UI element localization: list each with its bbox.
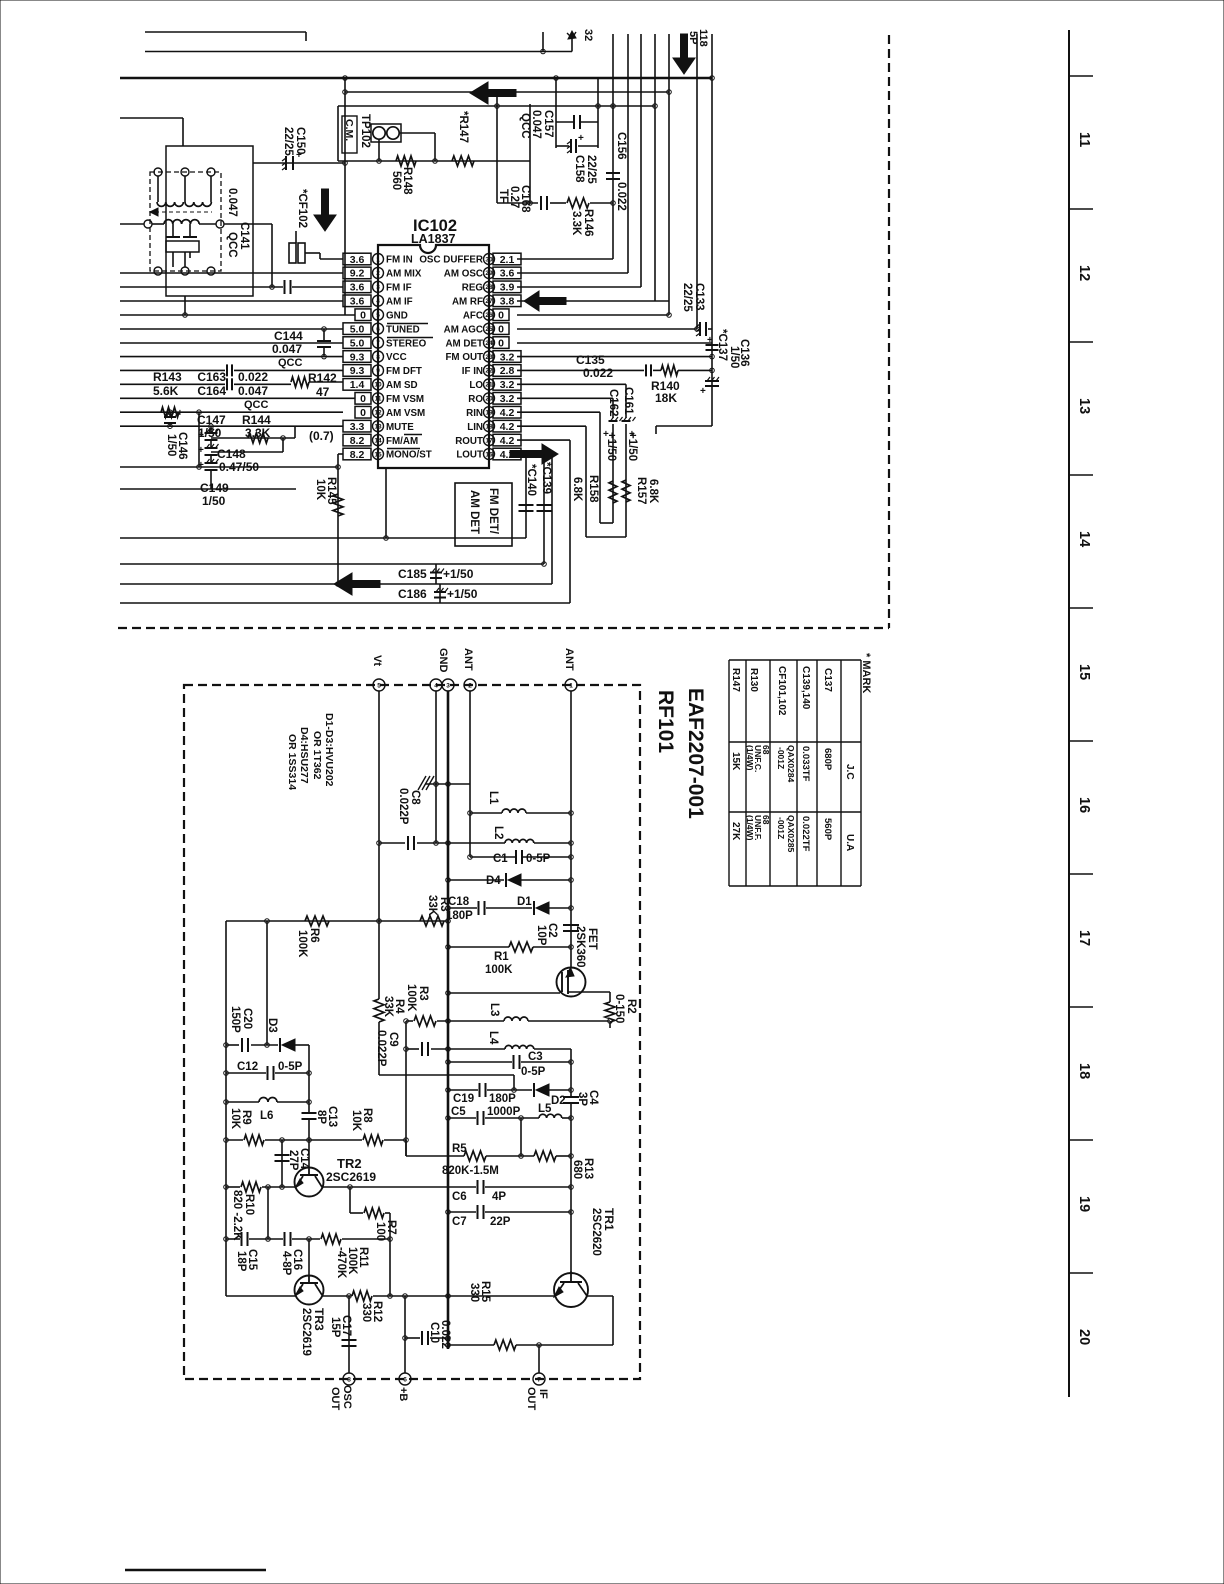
capacitor C10 row: [405, 1337, 420, 1339]
wire pin28 rail: [517, 286, 641, 288]
svg-text:27P: 27P: [287, 1150, 299, 1171]
wire pin9 rail: [120, 369, 225, 371]
svg-text:5.6K: 5.6K: [153, 384, 179, 398]
svg-text:D3: D3: [266, 1018, 278, 1033]
svg-text:C148: C148: [217, 447, 246, 461]
IC pin 22 IF IN: [484, 365, 495, 376]
IC pin name overlines: [387, 323, 428, 325]
svg-text:AM IF: AM IF: [386, 296, 413, 307]
svg-text:TP102: TP102: [359, 114, 371, 148]
svg-text:+1/50: +1/50: [447, 587, 478, 601]
terminal 8 OSC OUT: [343, 1373, 355, 1385]
wire rail y538: [120, 537, 526, 539]
svg-text:RO: RO: [468, 394, 483, 405]
svg-text:0.047: 0.047: [272, 342, 302, 356]
svg-text:15P: 15P: [329, 1317, 341, 1338]
terminal 4 GND: [430, 679, 442, 691]
resistor R15: [494, 1340, 516, 1350]
capacitor C7: [477, 1205, 479, 1219]
svg-text:R13: R13: [582, 1158, 594, 1179]
wire C156 drop: [612, 34, 614, 259]
svg-text:C17: C17: [340, 1315, 352, 1336]
svg-text:ROUT: ROUT: [455, 436, 483, 447]
wire x406 vertical: [405, 1021, 407, 1156]
wire pin11 rail: [120, 397, 355, 399]
svg-text:33K: 33K: [382, 996, 394, 1018]
resistor R3a 33K: [420, 916, 444, 926]
capacitor C158: [570, 139, 572, 153]
svg-text:6: 6: [403, 1376, 407, 1383]
svg-text:100K: 100K: [485, 964, 513, 976]
svg-text:0: 0: [360, 310, 366, 322]
ruler line: [1068, 30, 1070, 1397]
transformer coupling arrow: [155, 211, 212, 213]
svg-text:25: 25: [485, 326, 493, 333]
capacitor C140: [519, 504, 534, 506]
svg-text:C6: C6: [452, 1191, 467, 1203]
svg-text:7: 7: [537, 1376, 541, 1383]
svg-text:*R147: *R147: [457, 111, 469, 143]
svg-text:LOUT: LOUT: [456, 450, 483, 461]
IC pin 21 LO: [484, 379, 495, 390]
svg-text:10K: 10K: [350, 1110, 362, 1132]
svg-text:C137: C137: [822, 668, 833, 692]
svg-text:R144: R144: [242, 413, 271, 427]
IC pin 4 AM IF: [373, 295, 384, 306]
svg-text:0.022P: 0.022P: [375, 1030, 387, 1067]
FET gate wire: [448, 992, 560, 994]
svg-text:R158: R158: [587, 475, 599, 503]
wire pin30 rail: [517, 258, 613, 260]
terminal 1 ANT: [565, 679, 577, 691]
svg-text:QAX0285: QAX0285: [786, 815, 796, 853]
svg-text:18: 18: [485, 423, 493, 430]
wire pin10 rail: [120, 383, 225, 385]
svg-text:* MARK: * MARK: [860, 653, 872, 693]
wire TR2 collector C6 row: [323, 1186, 476, 1188]
capacitor C17: [342, 1339, 357, 1341]
RF101 dashed enclosure: [184, 685, 640, 1379]
resistor R8: [363, 1135, 383, 1145]
ruler tick 7: [1069, 1006, 1093, 1008]
svg-text:27K: 27K: [730, 822, 741, 841]
wire TR3 row: [226, 1295, 296, 1297]
wire R9 R8 row: [226, 1139, 243, 1141]
resistor R142: [291, 377, 309, 387]
svg-text:-470K: -470K: [335, 1247, 347, 1279]
svg-text:TR1: TR1: [602, 1208, 616, 1231]
svg-text:OUT: OUT: [525, 1387, 537, 1411]
wire pin15 stub: [338, 453, 343, 455]
svg-text:D4:HSU277: D4:HSU277: [298, 727, 310, 784]
IC pin 25 AM AGC: [484, 323, 495, 334]
arrow signal LOUT: [510, 444, 558, 464]
svg-text:680: 680: [571, 1160, 583, 1179]
svg-text:0.033TF: 0.033TF: [800, 746, 811, 782]
svg-text:C3: C3: [528, 1051, 543, 1063]
resistor R148: [396, 156, 416, 166]
wire x268 vertical: [267, 1187, 269, 1239]
svg-text:13: 13: [1076, 398, 1092, 414]
test point TP102 jacks: [371, 124, 401, 142]
svg-text:3.6: 3.6: [350, 254, 365, 266]
wire pin27 rail: [517, 300, 669, 302]
svg-text:15K: 15K: [730, 752, 741, 771]
svg-text:22/25: 22/25: [282, 127, 294, 156]
svg-text:AFC: AFC: [463, 310, 483, 321]
capacitor C4: [563, 1096, 579, 1098]
svg-text:C185: C185: [398, 567, 427, 581]
svg-text:VCC: VCC: [386, 352, 407, 363]
svg-text:20: 20: [1076, 1329, 1092, 1345]
svg-text:*C139: *C139: [540, 462, 552, 494]
svg-text:0-5P: 0-5P: [526, 853, 551, 865]
wire transformer ground drop: [184, 296, 186, 315]
capacitor C139 chain: [543, 454, 545, 564]
resistor R144: [248, 433, 268, 443]
svg-text:3.6: 3.6: [350, 282, 365, 294]
svg-text:AM OSC: AM OSC: [444, 269, 483, 280]
capacitor C8: [407, 836, 409, 850]
transformer primary winding: [157, 202, 183, 206]
svg-text:4-8P: 4-8P: [280, 1251, 292, 1276]
capacitor C162 chain: [612, 398, 614, 418]
svg-text:0: 0: [498, 323, 504, 335]
svg-text:18: 18: [1076, 1063, 1092, 1079]
svg-text:RF101: RF101: [654, 690, 677, 753]
wire bus x641: [640, 34, 642, 287]
svg-text:2SC2619: 2SC2619: [326, 1170, 376, 1184]
svg-text:C9: C9: [387, 1032, 399, 1047]
capacitor C10: [421, 1331, 423, 1345]
svg-text:C15: C15: [246, 1249, 258, 1271]
wire R5 R13 row: [406, 1155, 464, 1157]
wire pin25 rail: [517, 328, 697, 330]
svg-text:EAF2207-001: EAF2207-001: [684, 688, 707, 819]
svg-text:C164: C164: [197, 384, 226, 398]
wire R8 corner to R5: [405, 1140, 407, 1156]
diode D1: [533, 901, 535, 915]
capacitor C9: [421, 1042, 423, 1056]
svg-text:13: 13: [374, 423, 382, 430]
svg-text:J.C: J.C: [844, 764, 855, 780]
ceramic filter CF102: [295, 231, 297, 243]
svg-text:15: 15: [374, 451, 382, 458]
wire ROUT drop: [569, 440, 571, 603]
wire x199 drop: [198, 412, 200, 467]
capacitor C18: [478, 901, 480, 915]
resistor R4: [374, 999, 384, 1022]
svg-text:C168: C168: [519, 185, 531, 213]
capacitor C163: [226, 364, 228, 376]
terminal 7 IF OUT: [533, 1373, 545, 1385]
IC pin 9 FM DFT: [373, 365, 384, 376]
svg-text:C13: C13: [326, 1106, 338, 1127]
svg-text:-001Z: -001Z: [776, 747, 786, 769]
svg-text:23: 23: [485, 354, 493, 361]
svg-text:2: 2: [468, 682, 472, 689]
svg-text:18K: 18K: [655, 391, 677, 405]
dashed border right of top section: [888, 35, 890, 628]
capacitor C16: [284, 1232, 286, 1246]
terminal 2 ANT: [464, 679, 476, 691]
svg-text:+: +: [198, 430, 204, 441]
wire pin18 rail: [517, 425, 586, 427]
label C.M. box: [342, 116, 357, 153]
capacitor C148: [205, 447, 218, 449]
svg-text:+: +: [177, 408, 183, 419]
wire pin22 rail: [517, 369, 644, 371]
svg-text:8: 8: [347, 1376, 351, 1383]
wire right chain x571: [570, 1049, 572, 1097]
svg-text:TUNED: TUNED: [386, 324, 420, 335]
svg-text:R12: R12: [371, 1301, 383, 1322]
svg-text:*C140: *C140: [525, 464, 537, 496]
svg-text:QCC: QCC: [226, 232, 238, 258]
wire rail y584: [120, 583, 552, 585]
capacitor C150 wire: [253, 162, 345, 164]
svg-text:OSC: OSC: [341, 1385, 353, 1409]
svg-text:330: 330: [360, 1303, 372, 1322]
svg-text:0.022TF: 0.022TF: [800, 816, 811, 852]
capacitor C158 wires: [556, 145, 569, 147]
svg-text:QCC: QCC: [244, 399, 269, 411]
wire pin4 drop x436: [435, 691, 437, 843]
svg-text:9: 9: [376, 368, 380, 375]
ruler tick 5: [1069, 740, 1093, 742]
svg-text:6.8K: 6.8K: [571, 477, 583, 502]
svg-text:29: 29: [485, 270, 493, 277]
svg-text:3: 3: [376, 284, 380, 291]
wire pin2 rail: [120, 272, 343, 274]
svg-text:Vt: Vt: [371, 655, 383, 666]
wire pin13 rail: [120, 425, 343, 427]
svg-text:14: 14: [374, 437, 382, 444]
svg-text:AM AGC: AM AGC: [444, 324, 483, 335]
wire IC bottom drop: [385, 468, 387, 538]
svg-text:2SC2620: 2SC2620: [590, 1208, 602, 1256]
IC pin 10 AM SD: [373, 379, 384, 390]
arrow signal AM RF: [524, 291, 566, 311]
svg-text:R7: R7: [385, 1220, 397, 1235]
resistor R13: [534, 1151, 556, 1161]
resistor R12: [352, 1291, 372, 1301]
capacitor C185: [435, 564, 437, 584]
svg-text:47: 47: [316, 385, 330, 399]
ground symbol: [425, 783, 470, 785]
wire rail y564: [120, 563, 544, 565]
svg-text:R145: R145: [325, 477, 337, 505]
capacitor C1 row: [470, 856, 515, 858]
svg-text:R6: R6: [308, 928, 320, 943]
IC pin 27 AM RF: [484, 295, 495, 306]
svg-text:C7: C7: [452, 1216, 467, 1228]
capacitor C146: [169, 412, 171, 416]
diode D4: [505, 873, 507, 887]
svg-text:0: 0: [360, 407, 366, 419]
svg-text:10: 10: [374, 382, 382, 389]
svg-text:AM RF: AM RF: [452, 296, 483, 307]
wire C7 row: [448, 1211, 476, 1213]
capacitor C1: [515, 850, 517, 864]
svg-text:100K: 100K: [346, 1247, 358, 1275]
svg-text:+: +: [198, 460, 204, 471]
svg-text:L2: L2: [492, 826, 504, 839]
svg-text:C135: C135: [576, 353, 605, 367]
capacitor C156: [606, 172, 620, 174]
svg-text:150P: 150P: [229, 1006, 241, 1033]
svg-text:RIN: RIN: [466, 408, 483, 419]
svg-text:0.022: 0.022: [615, 182, 627, 211]
svg-text:L5: L5: [538, 1103, 552, 1115]
wire R6 R3 top row: [226, 920, 448, 922]
svg-text:22/25: 22/25: [681, 283, 693, 312]
svg-text:GND: GND: [437, 648, 449, 673]
diode D2: [533, 1083, 535, 1097]
capacitor C168: [540, 196, 542, 210]
svg-text:C1: C1: [493, 853, 508, 865]
transformer terminals: [154, 168, 162, 176]
svg-text:-001Z: -001Z: [776, 817, 786, 839]
svg-text:4: 4: [376, 298, 380, 305]
capacitor C157 cluster wires: [555, 78, 557, 148]
svg-text:R3: R3: [438, 897, 450, 912]
wire main rail y78: [120, 77, 712, 79]
IC pin 30 OSC DUFFER: [484, 254, 495, 265]
svg-text:15: 15: [1076, 664, 1092, 680]
svg-text:3.8: 3.8: [500, 296, 515, 308]
inductor L1: [470, 812, 502, 814]
capacitor C161 chain: [625, 384, 627, 418]
svg-text:8.2: 8.2: [350, 435, 365, 447]
svg-text:2.8: 2.8: [500, 365, 515, 377]
svg-text:TF: TF: [497, 189, 509, 203]
svg-text:R143: R143: [153, 370, 182, 384]
svg-text:R4: R4: [393, 999, 405, 1014]
svg-text:26: 26: [485, 312, 493, 319]
svg-text:R148: R148: [401, 167, 413, 195]
footer blue line: [125, 1569, 266, 1571]
svg-text:5.0: 5.0: [350, 337, 365, 349]
wire R15 row: [448, 1344, 494, 1346]
svg-text:C4: C4: [587, 1090, 599, 1105]
ruler tick 9: [1069, 1272, 1093, 1274]
svg-text:22: 22: [485, 368, 493, 375]
svg-text:STEREO: STEREO: [386, 338, 427, 349]
terminal 3 GND: [442, 679, 454, 691]
svg-text:3.2: 3.2: [500, 393, 515, 405]
svg-text:4.2: 4.2: [500, 407, 515, 419]
capacitor C151: [284, 280, 286, 294]
transformer secondary winding: [164, 220, 199, 224]
svg-text:12: 12: [374, 410, 382, 417]
IC pin 2 AM MIX: [373, 267, 384, 278]
wire C5 L5 row: [448, 1117, 476, 1119]
svg-text:19: 19: [485, 410, 493, 417]
svg-text:8P: 8P: [315, 1110, 327, 1124]
wire transformer right lead: [224, 223, 272, 225]
svg-text:L3: L3: [488, 1003, 500, 1016]
transistor TR3 base drop: [308, 1239, 310, 1276]
svg-text:+: +: [198, 445, 204, 456]
wire pin17 rail: [517, 439, 570, 441]
svg-text:CF101,102: CF101,102: [776, 666, 787, 716]
wire pin19 rail: [517, 411, 600, 413]
svg-text:1000P: 1000P: [487, 1106, 521, 1118]
svg-text:0.022: 0.022: [238, 370, 268, 384]
arrow adjust down CF102: [314, 189, 336, 231]
svg-text:L1: L1: [487, 791, 499, 805]
svg-text:16: 16: [1076, 797, 1092, 813]
wire transformer left lead: [120, 223, 144, 225]
svg-text:C136: C136: [738, 339, 750, 367]
wire bus x712: [711, 34, 713, 426]
svg-text:10K: 10K: [229, 1108, 241, 1130]
resistor R145 wire: [337, 454, 339, 584]
svg-text:GND: GND: [386, 310, 408, 321]
wire rail y467: [120, 466, 338, 468]
svg-text:R9: R9: [240, 1110, 252, 1125]
svg-text:(1/4W): (1/4W): [745, 745, 755, 771]
svg-text:FM VSM: FM VSM: [386, 394, 424, 405]
svg-text:1: 1: [569, 682, 573, 689]
wire L6 row: [226, 1101, 259, 1103]
wire top bracket: [145, 31, 306, 33]
svg-text:AM SD: AM SD: [386, 380, 418, 391]
wire LOUT drop: [551, 454, 553, 584]
wire x309 vertical: [308, 1045, 310, 1113]
svg-text:4P: 4P: [492, 1191, 506, 1203]
rail x226: [225, 921, 227, 1296]
wire R144 row: [294, 426, 296, 438]
svg-text:C146: C146: [176, 432, 188, 460]
svg-text:C156: C156: [615, 132, 627, 160]
IC U102 LA1837 body: [378, 245, 489, 468]
wire pin7 rail: [120, 342, 343, 344]
svg-text:C133: C133: [693, 283, 705, 311]
IC pin 14 FM/AM: [373, 435, 384, 446]
wire upper rail: [145, 51, 572, 53]
svg-text:560P: 560P: [822, 818, 833, 841]
svg-text:R1: R1: [494, 951, 509, 963]
svg-text:+1/50: +1/50: [605, 432, 617, 461]
transistor TR3 2SC2619: [295, 1276, 324, 1305]
capacitor C137: [706, 344, 719, 346]
svg-text:14: 14: [1076, 531, 1092, 547]
svg-text:D1: D1: [517, 896, 532, 908]
IC pin 23 FM OUT: [484, 351, 495, 362]
capacitor C6: [477, 1180, 479, 1194]
svg-text:MONO/ST: MONO/ST: [386, 450, 432, 461]
svg-text:17: 17: [1076, 930, 1092, 946]
svg-text:3.2: 3.2: [500, 379, 515, 391]
svg-text:C18: C18: [448, 896, 470, 908]
svg-text:R2: R2: [625, 999, 637, 1014]
svg-text:FM IN: FM IN: [386, 255, 413, 266]
IC pin 7 STEREO: [373, 337, 384, 348]
terminal 5 Vt: [373, 679, 385, 691]
svg-text:R146: R146: [582, 209, 594, 237]
capacitor C157: [573, 115, 575, 129]
wire pin4 rail: [120, 300, 343, 302]
arrow signal-flow down x684: [673, 34, 695, 74]
svg-text:3.3K: 3.3K: [245, 426, 271, 440]
svg-text:C147: C147: [197, 413, 226, 427]
wire rail y452: [211, 451, 283, 453]
svg-text:(0.7): (0.7): [309, 429, 334, 443]
wire C15 C16 R11 row: [226, 1238, 240, 1240]
wire TP102 left jack down: [378, 139, 380, 161]
